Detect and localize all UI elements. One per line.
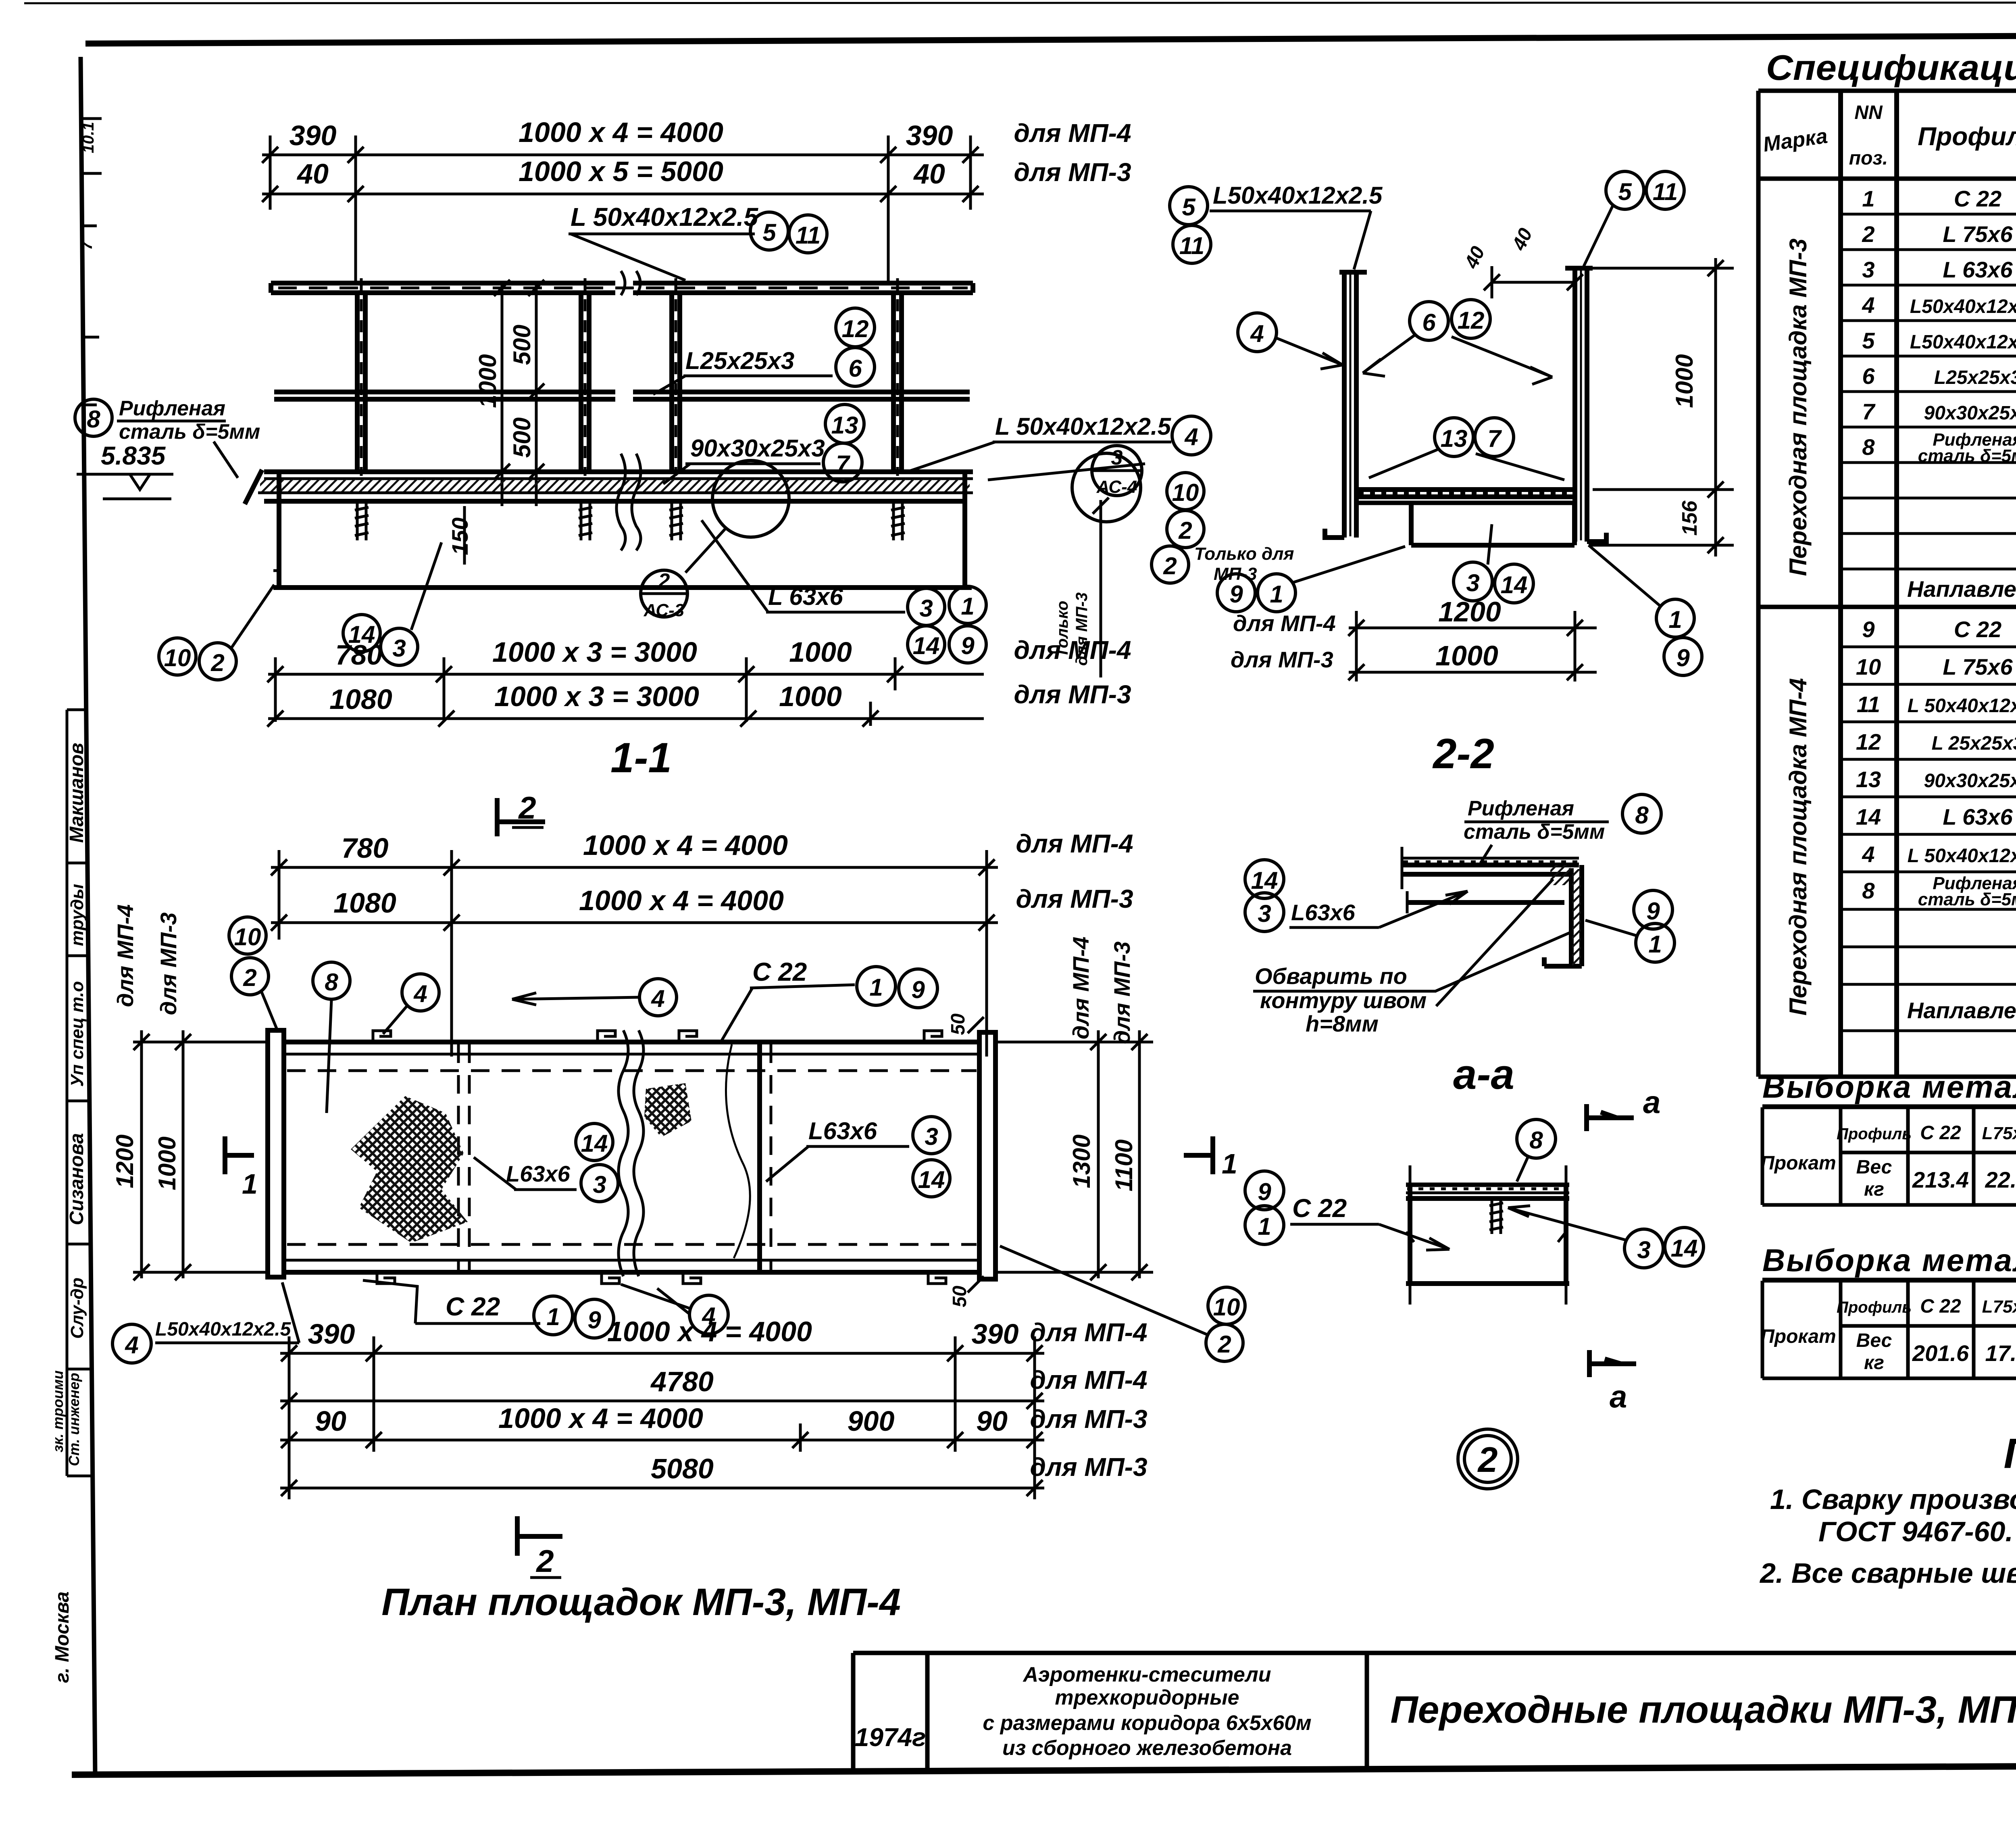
svg-text:7: 7 <box>836 450 850 477</box>
svg-text:1000: 1000 <box>1671 354 1698 408</box>
svg-text:L75x6: L75x6 <box>1982 1123 2016 1143</box>
svg-text:14: 14 <box>918 1166 945 1193</box>
big detail circle mid-span <box>712 461 789 537</box>
small 40 dims top <box>1492 281 1575 284</box>
svg-text:кг: кг <box>1864 1352 1884 1373</box>
2-2 right post <box>1565 268 1593 542</box>
a-a channel body <box>1408 1185 1412 1284</box>
svg-text:Переходная площадка МП-4: Переходная площадка МП-4 <box>1785 678 1812 1015</box>
svg-text:9: 9 <box>1862 617 1874 642</box>
circle 4 with leader <box>1238 313 1277 352</box>
plan bottom dim row 90/1000x4=4000/900/90 <box>280 1423 1044 1452</box>
svg-text:C 22: C 22 <box>1920 1122 1961 1144</box>
double circle detail mark 2 <box>1458 1429 1518 1489</box>
svg-text:C 22: C 22 <box>752 957 807 986</box>
welded stud <box>1489 1198 1503 1234</box>
svg-text:13: 13 <box>1441 425 1468 452</box>
svg-text:Слу-др: Слу-др <box>67 1278 87 1339</box>
svg-text:АС-3: АС-3 <box>644 600 684 620</box>
callout circles 13/7 with label 90x30x25x3 <box>825 404 864 443</box>
circle 8 <box>1517 1119 1556 1158</box>
svg-text:Вес: Вес <box>1856 1330 1892 1351</box>
svg-text:1300: 1300 <box>1068 1134 1095 1188</box>
svg-text:1000: 1000 <box>474 354 501 408</box>
svg-text:Рифленая: Рифленая <box>119 397 225 420</box>
svg-text:9: 9 <box>1646 898 1660 925</box>
svg-text:для МП-3: для МП-3 <box>1030 1453 1147 1482</box>
spec table row lines MP-3 <box>1841 214 2016 569</box>
svg-text:1. Сварку производить элект: 1. Сварку производить электродами Э-42 <box>1770 1484 2016 1515</box>
plan left vertical dims 1200/1000 <box>133 1030 268 1280</box>
svg-text:156: 156 <box>1678 500 1702 536</box>
svg-text:90x30x25x3: 90x30x25x3 <box>1924 770 2016 792</box>
plan right end plate <box>979 1032 996 1279</box>
page frame: bottom border <box>72 1764 2016 1775</box>
svg-text:2: 2 <box>518 790 536 825</box>
svg-text:12: 12 <box>1458 307 1485 334</box>
svg-text:2: 2 <box>535 1543 554 1579</box>
svg-text:5080: 5080 <box>651 1453 714 1484</box>
deck: channel top + riffled plate <box>264 469 973 474</box>
plan bottom dim row 4780 <box>280 1393 1044 1409</box>
svg-text:780: 780 <box>342 832 389 864</box>
svg-text:NN: NN <box>1854 102 1883 123</box>
left stamp cells <box>67 710 91 1476</box>
svg-text:1080: 1080 <box>329 684 392 715</box>
svg-text:L75x6: L75x6 <box>1982 1297 2016 1317</box>
svg-text:1: 1 <box>1222 1148 1237 1180</box>
svg-text:10: 10 <box>234 923 261 950</box>
svg-text:1000 x 5 = 5000: 1000 x 5 = 5000 <box>519 156 723 187</box>
dim row 40/1000x5=5000/40 <box>262 186 984 202</box>
svg-text:2: 2 <box>1163 552 1177 579</box>
svg-text:сталь δ=5мм: сталь δ=5мм <box>1918 890 2016 909</box>
svg-text:4: 4 <box>651 985 664 1012</box>
long crack leader inside plan <box>726 1044 750 1258</box>
svg-text:2: 2 <box>210 649 224 676</box>
detail circle callout 3/AC-4 <box>1092 446 1142 496</box>
svg-text:1: 1 <box>869 974 883 1001</box>
svg-text:1000: 1000 <box>789 636 852 668</box>
svg-text:11: 11 <box>1653 178 1678 205</box>
svg-text:90x30x25x3: 90x30x25x3 <box>690 435 825 462</box>
bolts under posts <box>355 501 905 540</box>
svg-text:L 75x6: L 75x6 <box>1943 221 2013 247</box>
svg-text:Прокат: Прокат <box>1760 1153 1836 1174</box>
svg-text:9: 9 <box>911 976 925 1003</box>
svg-text:390: 390 <box>289 120 337 151</box>
callout circle 2 only-MP3 <box>1152 546 1189 583</box>
svg-text:4: 4 <box>413 980 427 1007</box>
svg-text:L 63x6: L 63x6 <box>768 583 843 610</box>
dim row 390/1000x4=4000/390 <box>262 135 984 282</box>
svg-text:150: 150 <box>447 517 473 555</box>
callout circle 11 <box>789 215 827 253</box>
svg-text:4: 4 <box>1184 423 1198 450</box>
svg-text:сталь δ=5мм: сталь δ=5мм <box>119 420 260 444</box>
svg-text:Аэротенки-стесители: Аэротенки-стесители <box>1022 1663 1271 1686</box>
svg-text:Примечания:: Примечания: <box>2004 1430 2016 1477</box>
svg-text:3: 3 <box>919 595 933 622</box>
dashed panel divider 1 <box>457 1044 460 1270</box>
svg-text:8: 8 <box>1862 878 1875 903</box>
svg-text:1-1: 1-1 <box>610 734 672 782</box>
plan right vertical dims 1300/1100 <box>996 1030 1153 1280</box>
svg-text:L 63x6: L 63x6 <box>1943 257 2013 282</box>
svg-text:1: 1 <box>961 593 974 620</box>
svg-text:8: 8 <box>1635 802 1649 829</box>
circles 1/9 bottom-right <box>1656 599 1694 637</box>
svg-text:6: 6 <box>848 355 862 382</box>
svg-text:для МП-3: для МП-3 <box>1014 680 1131 709</box>
svg-text:1100: 1100 <box>1110 1139 1137 1191</box>
svg-text:сталь δ=5мм: сталь δ=5мм <box>1918 446 2016 466</box>
svg-text:500: 500 <box>508 417 535 458</box>
svg-text:2: 2 <box>658 569 670 593</box>
svg-text:1080: 1080 <box>333 887 396 919</box>
svg-text:14: 14 <box>1251 867 1278 894</box>
svg-text:ГОСТ 9467-60.: ГОСТ 9467-60. <box>1818 1516 2013 1547</box>
plan dim row 780/1000x4=4000 <box>271 850 998 1057</box>
circle 8 <box>1622 794 1661 833</box>
svg-text:АС-4: АС-4 <box>1096 477 1137 497</box>
svg-text:L50x40x12x2.5: L50x40x12x2.5 <box>1213 182 1383 209</box>
detail plate <box>1402 863 1579 867</box>
detail angle L63 <box>1407 900 1564 905</box>
svg-text:Прокат: Прокат <box>1760 1326 1836 1347</box>
svg-text:для МП-4: для МП-4 <box>1014 636 1131 665</box>
svg-text:7: 7 <box>1862 399 1876 424</box>
plan section mark 1 right <box>1210 1136 1215 1174</box>
svg-text:Переходная площадка МП-3: Переходная площадка МП-3 <box>1785 238 1812 576</box>
svg-text:a: a <box>1643 1084 1660 1120</box>
svg-text:План площадок МП-3, МП-4: План площадок МП-3, МП-4 <box>381 1581 901 1624</box>
bottom dim row 780/1000x3=3000/1000 <box>267 657 984 722</box>
plan callout circle 10 <box>229 917 266 954</box>
svg-text:для МП-3: для МП-3 <box>1030 1405 1147 1434</box>
svg-text:6: 6 <box>1862 363 1875 389</box>
svg-text:1: 1 <box>1648 931 1662 958</box>
svg-text:L50x40x12x2.5: L50x40x12x2.5 <box>155 1319 292 1340</box>
circles 14/3 with label L63x6 <box>1245 860 1284 898</box>
svg-text:8: 8 <box>1529 1127 1543 1154</box>
svg-text:Профиль: Профиль <box>1918 122 2016 151</box>
svg-text:14: 14 <box>1501 571 1528 598</box>
page frame: top border <box>85 34 2016 44</box>
svg-text:390: 390 <box>972 1318 1019 1350</box>
svg-text:13: 13 <box>831 412 858 439</box>
svg-text:зк. троими: зк. троими <box>50 1370 66 1452</box>
svg-text:Наплавленный металл 0.5%: Наплавленный металл 0.5% <box>1907 576 2016 602</box>
svg-text:11: 11 <box>1179 232 1204 259</box>
svg-text:контуру швом: контуру швом <box>1260 988 1427 1013</box>
svg-text:3: 3 <box>1862 257 1874 282</box>
svg-text:поз.: поз. <box>1849 148 1888 169</box>
callout circle 2 right <box>1167 511 1204 548</box>
section mark a bottom <box>1587 1350 1592 1377</box>
mid-span break line <box>616 454 625 550</box>
svg-text:3: 3 <box>1637 1236 1650 1263</box>
svg-text:12: 12 <box>842 315 869 342</box>
svg-text:Рифленая: Рифленая <box>1468 797 1574 820</box>
svg-text:L 50x40x12x2.5: L 50x40x12x2.5 <box>1908 845 2016 867</box>
svg-text:9: 9 <box>587 1307 601 1334</box>
svg-text:2-2: 2-2 <box>1432 730 1494 777</box>
weld tabs top edge <box>373 1031 946 1284</box>
plan section mark 1 left <box>223 1136 227 1174</box>
svg-text:a: a <box>1610 1379 1627 1414</box>
plan callout circle 2 <box>231 958 269 995</box>
svg-text:390: 390 <box>308 1318 355 1350</box>
spec rows MP-3 data <box>1862 186 2016 466</box>
svg-text:4: 4 <box>125 1332 138 1359</box>
detail channel <box>1544 865 1582 966</box>
svg-text:сталь δ=5мм: сталь δ=5мм <box>1464 820 1605 844</box>
svg-text:L 50x40x12x2.5: L 50x40x12x2.5 <box>1908 695 2016 717</box>
svg-text:201.6: 201.6 <box>1912 1340 1969 1366</box>
svg-text:для МП-4: для МП-4 <box>1014 119 1131 148</box>
svg-text:1: 1 <box>1862 186 1874 211</box>
svg-text:4: 4 <box>1862 292 1874 318</box>
svg-text:10: 10 <box>1172 479 1199 506</box>
svg-text:1000 x 4 = 4000: 1000 x 4 = 4000 <box>607 1316 812 1347</box>
svg-text:8: 8 <box>87 406 100 433</box>
svg-text:труды: труды <box>67 884 87 946</box>
svg-text:2: 2 <box>1862 221 1874 247</box>
svg-text:Вес: Вес <box>1856 1157 1892 1178</box>
section mark 2 upper <box>495 798 500 836</box>
svg-text:13: 13 <box>1856 767 1881 792</box>
svg-text:14: 14 <box>1856 804 1881 829</box>
svg-text:L50x40x12x2.5: L50x40x12x2.5 <box>1910 296 2016 317</box>
svg-text:для МП-3: для МП-3 <box>1109 942 1135 1044</box>
bottom dim row 1080/1000x3=3000/1000 <box>267 702 984 727</box>
circle 5 top-left of 2-2 <box>1170 187 1208 225</box>
section mark 2 bottom <box>515 1516 520 1556</box>
svg-text:10: 10 <box>1856 654 1881 679</box>
svg-text:1000: 1000 <box>154 1136 181 1190</box>
svg-text:L 63x6: L 63x6 <box>1943 804 2013 829</box>
svg-text:390: 390 <box>906 120 953 151</box>
svg-text:L 50x40x12x2.5: L 50x40x12x2.5 <box>571 202 758 231</box>
svg-text:6: 6 <box>1422 309 1436 336</box>
svg-text:1: 1 <box>546 1303 560 1330</box>
spec rows MP-4 data <box>1856 617 2016 909</box>
circle 11 below <box>1173 225 1211 263</box>
svg-text:2: 2 <box>1477 1440 1498 1480</box>
svg-text:Выборка металла на площадку: Выборка металла на площадку МП-4 <box>1762 1242 2016 1278</box>
circles 13/7 with leaders <box>1435 418 1473 456</box>
svg-text:50: 50 <box>949 1286 971 1307</box>
plan callout circle 8 <box>313 962 350 999</box>
svg-text:8: 8 <box>325 969 338 996</box>
svg-text:4: 4 <box>1250 320 1264 347</box>
plan circles 10/2 bottom-right <box>1208 1287 1245 1324</box>
svg-text:3: 3 <box>1466 569 1479 596</box>
svg-text:для МП-4: для МП-4 <box>1016 829 1133 858</box>
svg-text:Макшанов: Макшанов <box>66 743 87 843</box>
circles 9/1 with label C22 <box>1245 1171 1284 1210</box>
svg-text:L63x6: L63x6 <box>1291 900 1356 925</box>
plan callout circle 4 left <box>402 974 439 1011</box>
svg-text:2. Все сварные швы h=4мм.: 2. Все сварные швы h=4мм. <box>1759 1557 2016 1589</box>
svg-text:1000 x 4 = 4000: 1000 x 4 = 4000 <box>498 1403 703 1434</box>
callout circles 10/2 lower-left <box>159 638 196 675</box>
2-2 bottom dims <box>1348 611 1597 681</box>
svg-text:a-a: a-a <box>1453 1051 1514 1098</box>
svg-text:г. Москва: г. Москва <box>52 1591 73 1683</box>
svg-text:L63x6: L63x6 <box>808 1117 877 1144</box>
middle rail <box>274 392 970 399</box>
plan left end plate <box>268 1030 284 1277</box>
circles 3/14 right <box>1624 1229 1663 1268</box>
svg-text:7: 7 <box>1487 425 1502 452</box>
deck left overhang cut <box>245 470 262 504</box>
callout circle 5 <box>750 212 788 250</box>
svg-text:1000 x 4 = 4000: 1000 x 4 = 4000 <box>519 117 723 148</box>
svg-text:11: 11 <box>1857 692 1880 717</box>
svg-text:10.1: 10.1 <box>79 122 97 153</box>
svg-text:40: 40 <box>913 158 945 190</box>
svg-text:90: 90 <box>315 1405 346 1437</box>
beam end plates <box>277 472 281 588</box>
svg-text:10: 10 <box>164 644 191 671</box>
svg-text:14: 14 <box>1671 1235 1698 1262</box>
svg-text:для МП-4: для МП-4 <box>1068 937 1093 1040</box>
svg-text:3: 3 <box>925 1123 938 1150</box>
svg-text:3: 3 <box>1258 900 1271 927</box>
svg-text:для МП-4: для МП-4 <box>1030 1365 1147 1394</box>
svg-text:для МП-3: для МП-3 <box>156 913 181 1015</box>
svg-text:5: 5 <box>1182 194 1196 221</box>
2-2 deck plate <box>1356 490 1575 497</box>
svg-text:7: 7 <box>78 240 96 250</box>
svg-text:из сборного железобетона: из сборного железобетона <box>1002 1736 1292 1760</box>
svg-text:Профиль: Профиль <box>1837 1125 1912 1143</box>
spec table row lines MP-4 <box>1841 647 2016 1031</box>
svg-text:1200: 1200 <box>111 1134 138 1188</box>
svg-text:Ст. инженер: Ст. инженер <box>66 1373 82 1466</box>
svg-text:для МП-4: для МП-4 <box>112 904 138 1007</box>
svg-text:трехкоридорные: трехкоридорные <box>1055 1686 1239 1709</box>
svg-text:40: 40 <box>296 158 329 190</box>
svg-text:h=8мм: h=8мм <box>1306 1011 1379 1036</box>
svg-text:Сизанова: Сизанова <box>66 1133 87 1225</box>
svg-text:90: 90 <box>976 1405 1008 1437</box>
top chord rail (handrail) left piece <box>271 283 973 293</box>
svg-text:5: 5 <box>762 219 777 246</box>
svg-text:L25x25x3: L25x25x3 <box>685 347 794 374</box>
plan bottom dim row 5080 <box>280 1480 1044 1496</box>
svg-text:5: 5 <box>1618 178 1632 205</box>
detail callout 2/AC-3 <box>641 570 687 617</box>
panel divider 2 (stiffener) <box>757 1044 762 1271</box>
svg-text:Обварить по: Обварить по <box>1255 963 1407 989</box>
spec table grid <box>1758 91 2016 1077</box>
callout circle 8 riffled steel <box>75 399 112 436</box>
svg-text:C 22: C 22 <box>446 1292 500 1321</box>
svg-text:1000: 1000 <box>779 681 842 712</box>
circles 9/1 bottom-left <box>1217 574 1255 612</box>
circles 6/12 with leaders <box>1410 302 1448 340</box>
plan deck outline bottom <box>284 1270 979 1275</box>
a-a channel top plate <box>1406 1183 1569 1187</box>
svg-text:для МП-4: для МП-4 <box>1030 1318 1147 1347</box>
svg-text:1: 1 <box>1258 1213 1271 1240</box>
svg-text:L 75x6: L 75x6 <box>1943 654 2013 679</box>
circles 5/11 top-right <box>1606 171 1644 209</box>
svg-text:3: 3 <box>392 635 406 662</box>
svg-text:Выборка металла на площадку: Выборка металла на площадку МП-3 <box>1762 1069 2016 1105</box>
svg-text:для МП-3: для МП-3 <box>1016 884 1133 913</box>
svg-text:L25x25x3: L25x25x3 <box>1934 367 2016 388</box>
svg-text:L50x40x12x2.5: L50x40x12x2.5 <box>1910 331 2016 353</box>
svg-text:12: 12 <box>1856 729 1881 754</box>
svg-text:Профиль: Профиль <box>1837 1298 1912 1316</box>
svg-text:11: 11 <box>796 222 821 249</box>
svg-text:10: 10 <box>1213 1294 1240 1321</box>
svg-text:1: 1 <box>1270 581 1283 608</box>
svg-text:Только для: Только для <box>1194 544 1294 564</box>
svg-text:8: 8 <box>1862 434 1875 460</box>
callout circles 14/3 bottom-left <box>343 615 380 652</box>
svg-text:213.4: 213.4 <box>1912 1167 1969 1192</box>
svg-text:2: 2 <box>243 964 256 991</box>
svg-text:50: 50 <box>948 1013 969 1035</box>
svg-text:22.8: 22.8 <box>1985 1167 2016 1192</box>
svg-text:9: 9 <box>961 632 975 659</box>
svg-text:Наплавленный металл 0.5%: Наплавленный металл 0.5% <box>1907 998 2016 1023</box>
plan deck outline top <box>284 1040 979 1044</box>
plan bottom dim row 390/1000x4=4000/390 <box>280 1336 1044 1499</box>
callout circles 12/6 with label L25x25x3 <box>836 308 875 347</box>
hatch patch small <box>644 1083 691 1137</box>
big detail circle right end <box>1072 453 1141 522</box>
svg-text:780: 780 <box>335 639 383 671</box>
svg-text:для МП-3: для МП-3 <box>1231 647 1333 672</box>
page frame: left border <box>81 57 95 1775</box>
svg-text:9: 9 <box>1229 581 1243 608</box>
svg-text:1974г: 1974г <box>855 1723 926 1752</box>
svg-text:1: 1 <box>1668 606 1682 633</box>
svg-text:900: 900 <box>848 1405 895 1437</box>
svg-text:500: 500 <box>508 325 535 365</box>
svg-text:L 50x40x12x2.5: L 50x40x12x2.5 <box>995 413 1172 440</box>
svg-text:для МП-3: для МП-3 <box>1014 158 1131 187</box>
2-2 right dim 1000/156 <box>1589 258 1734 556</box>
svg-text:3: 3 <box>593 1171 606 1198</box>
svg-text:L63x6: L63x6 <box>506 1161 571 1186</box>
svg-text:1: 1 <box>242 1168 258 1200</box>
plan dim row 1080/1000x4=4000 <box>271 915 998 931</box>
hatch patch large <box>351 1096 468 1243</box>
svg-text:14: 14 <box>913 632 940 659</box>
svg-text:2: 2 <box>1217 1331 1231 1358</box>
plan break line <box>619 1030 628 1276</box>
section mark a top <box>1584 1104 1589 1131</box>
svg-text:4780: 4780 <box>650 1366 714 1397</box>
svg-text:5: 5 <box>1862 328 1875 353</box>
2-2 bottom channel <box>1411 503 1574 545</box>
svg-text:9: 9 <box>1258 1178 1271 1205</box>
svg-text:C 22: C 22 <box>1292 1194 1347 1223</box>
svg-text:Уп спец т.о: Уп спец т.о <box>67 981 87 1087</box>
weld hatch at joint <box>1550 865 1570 885</box>
svg-text:4: 4 <box>1862 842 1874 867</box>
callout circle 10 right <box>1167 473 1204 510</box>
svg-text:с размерами коридора 6х5х60м: с размерами коридора 6х5х60м <box>983 1711 1311 1735</box>
svg-text:кг: кг <box>1864 1179 1884 1200</box>
